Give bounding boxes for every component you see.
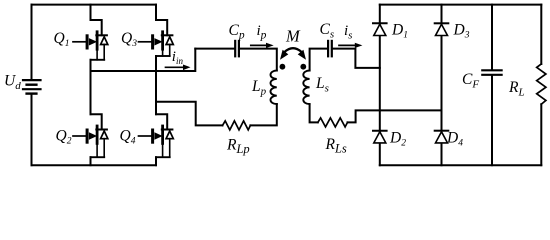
resistor R_Ls	[318, 118, 348, 127]
transistor Q1	[73, 20, 108, 60]
wire bridge upper output	[91, 49, 196, 71]
wire right leg middle	[155, 56, 157, 114]
wire Ls top to Cs	[310, 49, 327, 71]
wire left leg upper	[90, 5, 92, 20]
transistor Q2	[73, 114, 108, 157]
capacitor Cp	[234, 41, 236, 56]
capacitor Cs	[327, 41, 329, 56]
diode D4	[435, 131, 449, 143]
resistor R_L	[537, 64, 546, 104]
wire left rail below battery	[31, 95, 33, 166]
wire left leg middle	[90, 60, 92, 114]
transistor Q3	[139, 20, 174, 56]
arrow i_s	[339, 44, 355, 46]
wire primary top line	[195, 48, 234, 50]
inductor Lp	[270, 71, 276, 105]
diode D1	[373, 23, 387, 35]
wire R_L branch lower	[540, 104, 542, 165]
wire R_Lp to Lp bottom	[250, 104, 276, 125]
diode D2	[373, 131, 387, 143]
wire rectifier top rail	[380, 4, 542, 6]
transistor Q4	[139, 114, 174, 157]
wire Cp to Lp top	[240, 49, 277, 71]
node dot secondary	[300, 64, 306, 70]
wire rectifier bottom rail	[380, 164, 542, 166]
wire R_Ls to rectifier lower input	[348, 110, 442, 122]
wire top rail left bridge	[32, 4, 157, 6]
node dot primary	[280, 64, 286, 70]
capacitor C_F	[482, 69, 501, 71]
arrow i_in	[166, 66, 184, 68]
wire rectifier mid rail	[441, 5, 443, 166]
wire C_F branch lower	[491, 76, 493, 165]
arrow i_p	[251, 44, 266, 46]
wire C_F branch upper	[491, 5, 493, 70]
svg-text:M: M	[285, 26, 301, 45]
diode D3	[435, 23, 449, 35]
wire bottom rail left bridge	[32, 164, 157, 166]
wire right leg lower	[155, 157, 157, 165]
wire bridge lower output	[156, 102, 223, 126]
wire Ls bottom to R_Ls	[310, 104, 318, 122]
wire R_L branch upper	[540, 5, 542, 64]
wire Cs to rectifier top input	[333, 49, 380, 68]
wire left leg lower	[90, 157, 92, 165]
resistor R_Lp	[223, 121, 251, 130]
mutual coupling M arrows	[285, 48, 302, 52]
wire right leg upper	[155, 5, 157, 20]
wire rectifier left rail	[379, 5, 381, 166]
battery Ud	[23, 80, 41, 94]
inductor Ls	[303, 71, 309, 105]
wire left rail above battery	[31, 5, 33, 80]
